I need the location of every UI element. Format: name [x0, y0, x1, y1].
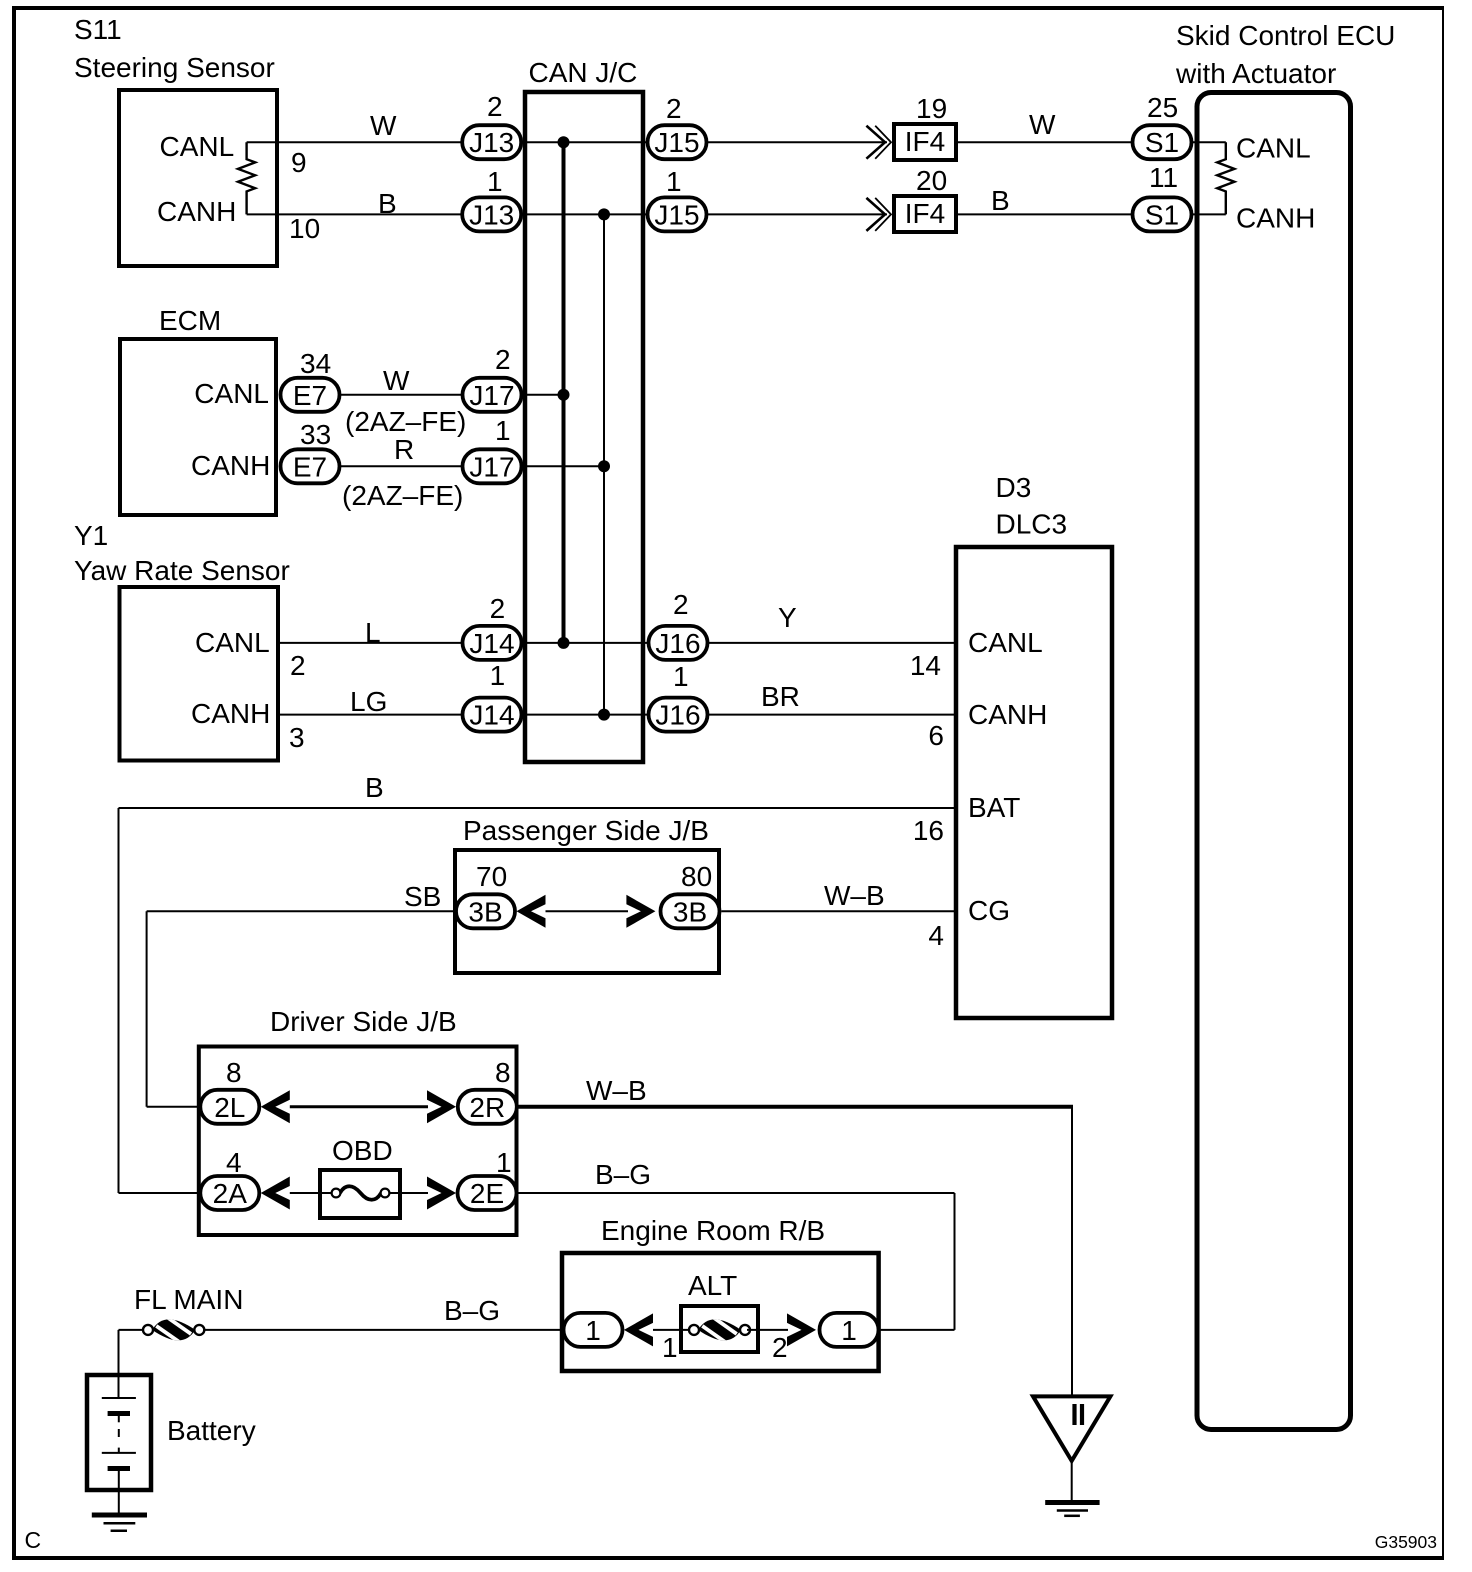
svg-text:CANH: CANH	[968, 699, 1047, 730]
svg-text:34: 34	[300, 348, 331, 379]
engine room R/B box	[562, 1253, 879, 1371]
svg-text:16: 16	[913, 815, 944, 846]
junction dot LG/J14	[598, 709, 610, 721]
svg-text:1: 1	[673, 661, 689, 692]
wire W J17 to bus	[524, 394, 564, 396]
wire W J15 to IF4	[708, 141, 887, 143]
svg-text:CAN J/C: CAN J/C	[529, 57, 638, 88]
steering sensor S11 box	[119, 90, 277, 266]
connector J13 pin 1	[462, 197, 521, 231]
svg-text:Steering Sensor: Steering Sensor	[74, 52, 275, 83]
svg-text:14: 14	[910, 650, 941, 681]
wire W inside CAN J/C	[523, 141, 646, 143]
wire B inside CAN J/C	[523, 213, 646, 215]
wire B-G vertical	[954, 1193, 956, 1330]
svg-text:Yaw Rate Sensor: Yaw Rate Sensor	[74, 555, 290, 586]
connector engine room connector 1 left	[564, 1313, 623, 1347]
svg-text:W: W	[1029, 109, 1056, 140]
svg-text:2: 2	[772, 1332, 788, 1363]
connector J15 pin 2	[648, 125, 707, 159]
CAN bus CANL vertical line in J/C	[562, 142, 566, 643]
svg-text:CANH: CANH	[191, 450, 270, 481]
terminating resistor in skid control ECU	[1217, 142, 1234, 214]
fusible link FL MAIN	[143, 1325, 153, 1335]
arrow at 3B 80	[626, 895, 655, 928]
wire LG yaw to J14	[278, 714, 462, 716]
shield crossing marker to IF4 19	[866, 126, 885, 159]
svg-text:B: B	[365, 772, 384, 803]
svg-text:2: 2	[495, 344, 511, 375]
svg-text:Y: Y	[778, 602, 797, 633]
wire to ALT fuse	[653, 1329, 692, 1331]
wire W IF4 to S1	[958, 141, 1131, 143]
svg-text:6: 6	[928, 720, 944, 751]
svg-text:B: B	[378, 188, 397, 219]
svg-text:80: 80	[681, 861, 712, 892]
svg-text:CANH: CANH	[1236, 203, 1315, 234]
wire W steering to J13	[247, 141, 462, 143]
svg-text:2: 2	[290, 650, 306, 681]
svg-text:(2AZ–FE): (2AZ–FE)	[342, 480, 463, 511]
svg-text:11: 11	[1149, 162, 1178, 193]
wire into 2A	[119, 1192, 199, 1194]
wire B-G 2E to engine room R/B	[518, 1192, 955, 1194]
connector E7 pin 33	[281, 449, 340, 483]
svg-text:1: 1	[496, 1147, 512, 1178]
svg-text:2E: 2E	[470, 1178, 504, 1209]
junction dot R/J17	[598, 460, 610, 472]
svg-text:9: 9	[291, 147, 307, 178]
wire battery to FL MAIN	[119, 1329, 144, 1331]
junction dot L/J14	[558, 637, 570, 649]
wire into 2L	[147, 1106, 198, 1108]
svg-text:J14: J14	[469, 700, 514, 731]
svg-text:3: 3	[289, 722, 305, 753]
svg-text:J16: J16	[655, 628, 700, 659]
svg-text:CANH: CANH	[157, 196, 236, 227]
wire 2A to OBD fuse	[290, 1192, 331, 1194]
connector IF4 20 box	[894, 196, 956, 232]
wire L inside CAN J/C	[523, 642, 648, 644]
connector J16 pin 1	[649, 698, 708, 732]
svg-text:CANL: CANL	[1236, 133, 1311, 164]
connector 2A pin 4	[200, 1176, 259, 1210]
arrow at 2R	[427, 1090, 456, 1123]
page border frame	[12, 6, 16, 1560]
svg-text:CANL: CANL	[195, 627, 270, 658]
connector J16 pin 2	[649, 626, 708, 660]
svg-text:ECM: ECM	[159, 305, 221, 336]
wire inside passenger J/B	[546, 910, 629, 912]
svg-text:CANL: CANL	[160, 131, 235, 162]
wire L yaw to J14	[278, 642, 462, 644]
wire SB vertical down to 2L	[146, 911, 148, 1107]
wire Y J16 to DLC3	[708, 642, 954, 644]
arrow at engine room 1 left	[624, 1313, 653, 1346]
svg-text:S1: S1	[1145, 127, 1179, 158]
svg-text:W: W	[383, 365, 410, 396]
wire battery negative to ground	[118, 1469, 120, 1514]
svg-text:J17: J17	[469, 451, 514, 482]
wire W-B 2R to ground	[519, 1105, 1074, 1109]
svg-text:IF4: IF4	[905, 126, 945, 157]
svg-text:19: 19	[916, 93, 947, 124]
connector E7 pin 34	[281, 378, 340, 412]
svg-text:2A: 2A	[213, 1178, 248, 1209]
svg-text:1: 1	[585, 1315, 601, 1346]
svg-text:Driver Side J/B: Driver Side J/B	[270, 1006, 457, 1037]
svg-text:33: 33	[300, 419, 331, 450]
wire B vertical down to 2A	[118, 808, 120, 1193]
wire OBD fuse to 2E	[390, 1192, 428, 1194]
svg-text:ALT: ALT	[688, 1270, 737, 1301]
svg-text:2: 2	[487, 91, 503, 122]
ECM box	[120, 339, 276, 515]
svg-text:1: 1	[666, 166, 682, 197]
svg-text:J14: J14	[469, 628, 514, 659]
connector 2E pin 1	[458, 1176, 517, 1210]
svg-text:C: C	[25, 1527, 42, 1553]
arrow at 2L	[261, 1090, 290, 1123]
svg-text:SB: SB	[404, 881, 441, 912]
connector S1 pin 25	[1133, 125, 1192, 159]
svg-text:1: 1	[841, 1315, 857, 1346]
battery cell symbol	[102, 1397, 136, 1399]
svg-text:25: 25	[1147, 92, 1178, 123]
svg-text:3B: 3B	[468, 896, 502, 927]
connector 3B pin 70	[456, 894, 515, 928]
wire B-G into engine room R/B	[881, 1329, 955, 1331]
svg-text:S1: S1	[1145, 199, 1179, 230]
svg-text:CANH: CANH	[191, 698, 270, 729]
svg-text:2L: 2L	[214, 1092, 245, 1123]
connector J17 pin 2	[463, 378, 522, 412]
connector IF4 19 box	[894, 124, 956, 160]
svg-text:W–B: W–B	[824, 880, 885, 911]
svg-text:CANL: CANL	[194, 378, 269, 409]
wire B steering to J13	[247, 213, 462, 215]
battery box	[87, 1375, 151, 1490]
wire SB to 3B 70	[147, 910, 455, 912]
svg-text:4: 4	[226, 1147, 242, 1178]
svg-text:70: 70	[476, 861, 507, 892]
svg-text:R: R	[394, 434, 414, 465]
svg-text:Battery: Battery	[167, 1415, 256, 1446]
svg-text:J15: J15	[654, 127, 699, 158]
junction dot W/J17	[558, 389, 570, 401]
CAN J/C junction box	[525, 92, 643, 762]
svg-text:B–G: B–G	[444, 1295, 500, 1326]
svg-text:W–B: W–B	[586, 1075, 647, 1106]
svg-text:2: 2	[673, 589, 689, 620]
svg-text:G35903: G35903	[1375, 1532, 1437, 1552]
svg-text:Passenger Side J/B: Passenger Side J/B	[463, 815, 709, 846]
ground symbol under battery	[92, 1513, 147, 1518]
fuse OBD	[320, 1170, 400, 1218]
svg-text:20: 20	[916, 165, 947, 196]
svg-text:B: B	[991, 185, 1010, 216]
svg-text:D3: D3	[996, 472, 1032, 503]
junction dot B/J13	[598, 208, 610, 220]
svg-text:Engine Room R/B: Engine Room R/B	[601, 1215, 825, 1246]
driver side J/B box	[199, 1047, 517, 1236]
connector engine room connector 1 right	[820, 1313, 879, 1347]
connector J14 pin 1	[463, 698, 522, 732]
connector 2L pin 8	[200, 1090, 259, 1124]
wire W S1 into ECU	[1193, 141, 1226, 143]
CAN bus CANH vertical line in J/C	[603, 214, 605, 714]
svg-text:LG: LG	[350, 686, 387, 717]
passenger side J/B box	[455, 850, 719, 973]
wire ALT fuse to right	[747, 1329, 788, 1331]
svg-text:J16: J16	[655, 700, 700, 731]
wire B DLC3 BAT to junction	[119, 807, 955, 809]
svg-text:FL MAIN: FL MAIN	[134, 1284, 243, 1315]
wire R J17 to bus	[524, 465, 605, 467]
svg-text:IF4: IF4	[905, 198, 945, 229]
svg-text:J13: J13	[469, 199, 514, 230]
wire W-B vertical to ground	[1071, 1107, 1073, 1397]
wire W ECM to J17	[341, 394, 461, 396]
wire R ECM to J17	[341, 465, 461, 467]
wire inside driver J/B top	[290, 1105, 428, 1108]
svg-text:OBD: OBD	[332, 1135, 393, 1166]
svg-text:E7: E7	[293, 380, 327, 411]
junction dot W/J13	[558, 136, 570, 148]
svg-text:1: 1	[662, 1332, 678, 1363]
svg-text:CANL: CANL	[968, 627, 1043, 658]
earth ground bars	[1045, 1500, 1099, 1505]
svg-text:BAT: BAT	[968, 792, 1020, 823]
terminating resistor in steering sensor	[238, 142, 255, 214]
connector J14 pin 2	[463, 626, 522, 660]
wire B IF4 to S1	[958, 213, 1131, 215]
wire B S1 into ECU	[1193, 213, 1226, 215]
svg-text:1: 1	[490, 660, 506, 691]
fusible link ALT	[689, 1325, 699, 1335]
svg-text:1: 1	[487, 166, 503, 197]
DLC3 connector D3 box	[956, 547, 1112, 1018]
ground triangle II	[1033, 1396, 1110, 1461]
svg-text:10: 10	[289, 213, 320, 244]
svg-text:4: 4	[928, 920, 944, 951]
wire B J15 to IF4	[708, 213, 887, 215]
svg-text:2R: 2R	[469, 1092, 505, 1123]
skid control ECU box	[1197, 93, 1351, 1430]
svg-text:S11: S11	[74, 14, 122, 45]
wire BR J16 to DLC3	[708, 714, 954, 716]
svg-text:3B: 3B	[673, 896, 707, 927]
arrow at 2A	[261, 1177, 290, 1210]
shield crossing marker to IF4 20	[866, 198, 885, 231]
connector 3B pin 80	[661, 894, 720, 928]
svg-text:2: 2	[666, 93, 682, 124]
svg-text:E7: E7	[293, 451, 327, 482]
svg-text:(2AZ–FE): (2AZ–FE)	[345, 406, 466, 437]
wire LG inside CAN J/C	[523, 714, 648, 716]
connector J17 pin 1	[463, 449, 522, 483]
wire down into battery	[118, 1330, 120, 1398]
svg-text:1: 1	[495, 415, 511, 446]
svg-text:Skid Control ECU: Skid Control ECU	[1176, 20, 1395, 51]
connector J13 pin 2	[462, 125, 521, 159]
svg-text:DLC3: DLC3	[996, 509, 1068, 540]
wire W-B 3B 80 to DLC3 CG	[721, 910, 954, 912]
connector S1 pin 11	[1133, 197, 1192, 231]
arrow at 2E	[427, 1177, 456, 1210]
yaw rate sensor Y1 box	[120, 587, 279, 761]
connector 2R pin 8	[458, 1090, 517, 1124]
svg-text:Y1: Y1	[74, 520, 108, 551]
svg-text:J17: J17	[469, 380, 514, 411]
svg-text:J15: J15	[654, 199, 699, 230]
svg-text:W: W	[370, 110, 397, 141]
svg-text:J13: J13	[469, 127, 514, 158]
arrow at engine room 1 right	[787, 1313, 816, 1346]
svg-text:8: 8	[226, 1057, 242, 1088]
connector J15 pin 1	[648, 197, 707, 231]
svg-text:CG: CG	[968, 895, 1010, 926]
svg-text:B–G: B–G	[595, 1159, 651, 1190]
ground label II	[1072, 1404, 1076, 1425]
wire ground triangle to earth	[1071, 1461, 1073, 1500]
svg-text:with Actuator: with Actuator	[1175, 58, 1336, 89]
svg-text:2: 2	[490, 593, 506, 624]
svg-text:8: 8	[495, 1057, 511, 1088]
svg-text:L: L	[365, 617, 381, 648]
svg-text:BR: BR	[761, 681, 800, 712]
arrow at 3B 70	[517, 895, 546, 928]
fuse ALT box	[681, 1306, 758, 1352]
wire B-G FL MAIN to engine room R/B	[204, 1329, 562, 1331]
